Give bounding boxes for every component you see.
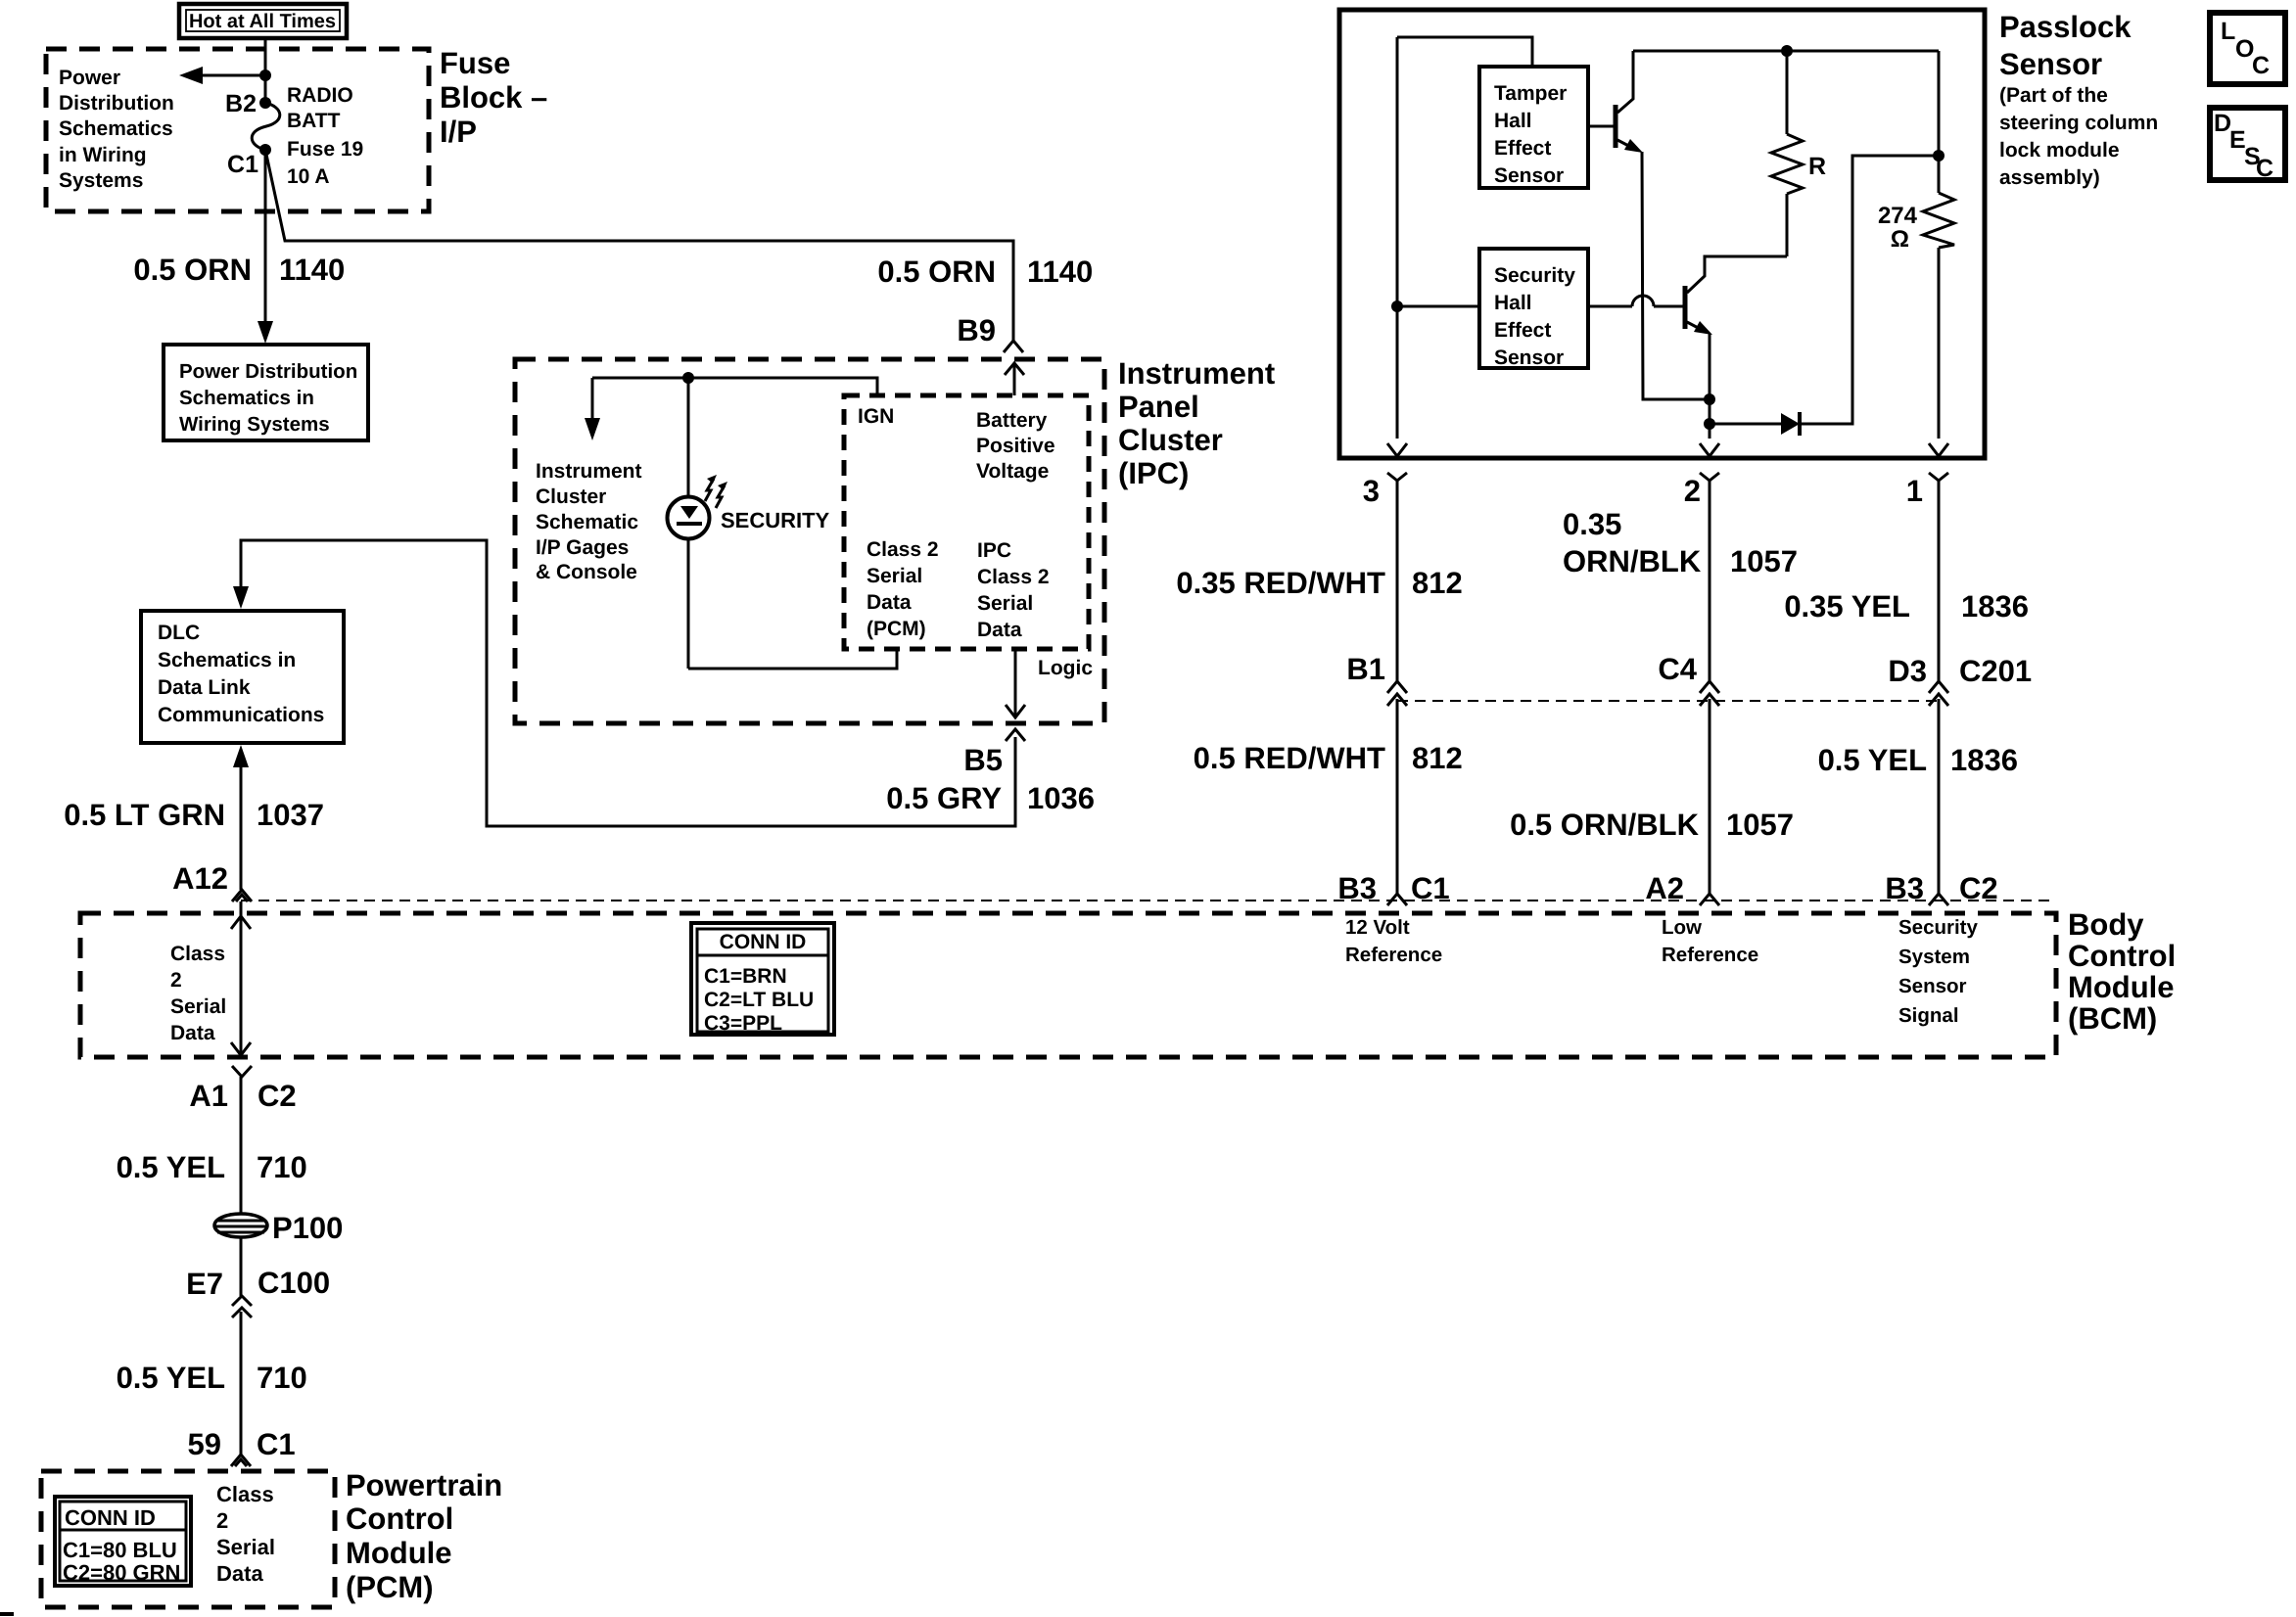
svg-text:Power Distribution: Power Distribution <box>179 360 357 383</box>
transistor Q1 (tamper) <box>1588 51 1643 153</box>
svg-text:DLC: DLC <box>158 622 200 644</box>
label Body Control Module (BCM) <box>2068 907 2176 1036</box>
svg-text:Data: Data <box>867 591 912 614</box>
text Class 2 Serial Data (BCM) <box>170 943 226 1044</box>
svg-text:Systems: Systems <box>59 169 143 192</box>
connector pin 3 <box>1363 473 1407 681</box>
junction dot on rail <box>1781 45 1793 57</box>
wire battery positive entering IPC <box>1005 363 1024 395</box>
svg-text:Data: Data <box>216 1561 263 1586</box>
svg-text:0.5 ORN/BLK: 0.5 ORN/BLK <box>1510 808 1700 842</box>
svg-text:Panel: Panel <box>1118 390 1199 424</box>
svg-text:Module: Module <box>2068 970 2175 1004</box>
text 12 Volt Reference <box>1345 916 1442 966</box>
svg-text:C1=BRN: C1=BRN <box>704 965 787 988</box>
svg-text:Reference: Reference <box>1662 944 1758 966</box>
wire LED to logic box <box>688 649 897 669</box>
svg-text:0.5 RED/WHT: 0.5 RED/WHT <box>1194 741 1385 775</box>
svg-text:2: 2 <box>1684 474 1701 508</box>
fuse block dashed box <box>46 49 429 211</box>
connector B3/C2 at BCM <box>1885 871 1997 905</box>
svg-text:Serial: Serial <box>216 1535 275 1559</box>
splice P100 <box>214 1211 343 1245</box>
svg-text:Powertrain: Powertrain <box>346 1468 502 1502</box>
svg-text:Power: Power <box>59 67 120 89</box>
svg-text:Control: Control <box>2068 939 2176 973</box>
LOC reference box <box>2210 13 2285 84</box>
connector A12 <box>232 890 252 901</box>
connector row C201 dashed line <box>1397 700 1939 702</box>
svg-text:B2: B2 <box>225 90 257 117</box>
top rail <box>1633 50 1939 53</box>
svg-text:Instrument: Instrument <box>1118 356 1275 391</box>
diode D1 branch <box>1710 156 1939 436</box>
svg-text:812: 812 <box>1412 741 1463 775</box>
connector B5 <box>1006 729 1025 741</box>
connector B3/C1 at BCM <box>1337 871 1449 905</box>
junction dot diode branch <box>1704 418 1715 430</box>
class 2 serial data wire through BCM <box>231 901 251 1055</box>
wire 0.5 YEL 710 to P100 <box>240 1077 243 1296</box>
text Low Reference <box>1662 916 1758 966</box>
svg-text:C3=PPL: C3=PPL <box>704 1012 782 1035</box>
connector row dashed line at BCM <box>241 900 2056 901</box>
svg-text:274: 274 <box>1878 203 1918 229</box>
svg-text:1: 1 <box>1906 474 1923 508</box>
svg-text:Logic: Logic <box>1038 657 1093 679</box>
svg-text:Hall: Hall <box>1494 292 1532 314</box>
svg-text:Schematics in: Schematics in <box>158 649 296 671</box>
svg-text:B9: B9 <box>957 313 996 347</box>
fuse value labels RADIO BATT Fuse 19 10 A <box>287 84 363 188</box>
svg-text:C4: C4 <box>1658 652 1697 686</box>
svg-text:R: R <box>1808 153 1826 180</box>
fuse F19 RADIO BATT <box>259 97 271 109</box>
arrow to instrument cluster schematic <box>585 378 600 440</box>
connector pin 2 <box>1684 473 1719 681</box>
svg-text:Data: Data <box>170 1022 215 1044</box>
svg-text:(BCM): (BCM) <box>2068 1001 2157 1036</box>
svg-text:Hot at All Times: Hot at All Times <box>189 11 336 32</box>
connector E7/C100 <box>186 1266 330 1317</box>
connector A2 at BCM <box>1645 871 1719 905</box>
svg-text:C2: C2 <box>258 1079 297 1113</box>
svg-text:Class 2: Class 2 <box>977 566 1050 588</box>
svg-text:C1: C1 <box>257 1427 296 1461</box>
junction dot emitter join <box>1704 393 1715 405</box>
svg-text:assembly): assembly) <box>1999 166 2100 189</box>
svg-text:SECURITY: SECURITY <box>721 508 830 532</box>
junction node on pin3 wire <box>1391 300 1403 312</box>
wire top-left to tamper sensor <box>1397 37 1532 67</box>
svg-text:C201: C201 <box>1959 654 2032 688</box>
svg-text:CONN ID: CONN ID <box>65 1505 156 1530</box>
svg-text:steering column: steering column <box>1999 112 2158 134</box>
page corner mark <box>0 1612 14 1616</box>
wire arrow to power distribution (left) <box>199 74 265 77</box>
svg-text:Serial: Serial <box>977 592 1033 615</box>
power feed box Hot at All Times <box>179 4 347 38</box>
svg-text:Distribution: Distribution <box>59 92 174 115</box>
svg-text:Fuse: Fuse <box>440 46 510 80</box>
svg-text:1036: 1036 <box>1027 781 1095 815</box>
svg-text:A1: A1 <box>189 1079 228 1113</box>
wire Q2 emitter down <box>1709 334 1711 424</box>
svg-text:0.35 RED/WHT: 0.35 RED/WHT <box>1176 566 1385 600</box>
svg-text:B1: B1 <box>1346 652 1385 686</box>
svg-text:Instrument: Instrument <box>536 460 642 483</box>
svg-text:Voltage: Voltage <box>976 460 1049 483</box>
wire to security sensor <box>1397 305 1479 308</box>
connector 59/C1 at PCM <box>188 1427 296 1466</box>
svg-text:Effect: Effect <box>1494 319 1551 342</box>
svg-text:Schematics in: Schematics in <box>179 387 314 409</box>
svg-text:1057: 1057 <box>1726 808 1794 842</box>
svg-text:Effect: Effect <box>1494 137 1551 160</box>
svg-text:Module: Module <box>346 1536 452 1570</box>
svg-text:0.5 YEL: 0.5 YEL <box>1818 743 1927 777</box>
CONN ID box (PCM) <box>55 1497 191 1586</box>
svg-text:C2=LT BLU: C2=LT BLU <box>704 989 814 1011</box>
svg-text:Sensor: Sensor <box>1494 164 1564 187</box>
svg-text:Class: Class <box>170 943 225 965</box>
svg-text:Data Link: Data Link <box>158 676 251 699</box>
svg-text:Battery: Battery <box>976 409 1048 432</box>
svg-text:E7: E7 <box>186 1267 223 1301</box>
Body Control Module dashed box <box>80 913 2056 1057</box>
svg-text:0.5 ORN: 0.5 ORN <box>877 254 996 289</box>
svg-text:Reference: Reference <box>1345 944 1442 966</box>
svg-text:RADIO: RADIO <box>287 84 353 107</box>
connector pin 1 <box>1906 473 1948 681</box>
svg-text:(PCM): (PCM) <box>346 1570 434 1604</box>
text Power Distribution Schematics in Wiring Systems <box>59 67 174 192</box>
connector A1/C2 below BCM <box>189 1066 296 1113</box>
box Power Distribution Schematics in Wiring Systems <box>164 345 368 440</box>
IPC inner logic dashed box <box>844 395 1089 649</box>
svg-text:Communications: Communications <box>158 704 324 726</box>
svg-text:1140: 1140 <box>1027 254 1093 289</box>
svg-text:1037: 1037 <box>257 798 324 832</box>
svg-text:0.5 YEL: 0.5 YEL <box>117 1361 225 1395</box>
svg-text:Schematics: Schematics <box>59 117 173 140</box>
resistor R <box>1771 51 1826 256</box>
svg-text:Low: Low <box>1662 916 1702 939</box>
svg-text:I/P: I/P <box>440 115 477 149</box>
svg-text:1836: 1836 <box>1950 743 2018 777</box>
wire pin3 internal (left vertical) <box>1396 37 1399 439</box>
svg-text:D3: D3 <box>1888 654 1927 688</box>
svg-text:C2=80 GRN: C2=80 GRN <box>63 1560 180 1585</box>
svg-text:Serial: Serial <box>170 995 226 1018</box>
svg-text:Positive: Positive <box>976 435 1055 457</box>
wire C1 down with arrow <box>264 150 267 325</box>
text Class 2 Serial Data (PCM) <box>867 538 939 640</box>
svg-text:3: 3 <box>1363 474 1380 508</box>
svg-text:1836: 1836 <box>1961 589 2029 624</box>
svg-text:Hall: Hall <box>1494 110 1532 132</box>
svg-text:Sensor: Sensor <box>1999 47 2102 81</box>
svg-text:12 Volt: 12 Volt <box>1345 916 1410 939</box>
svg-text:Cluster: Cluster <box>1118 423 1223 457</box>
label Passlock Sensor (Part of the steering column lock module assembly) <box>1999 10 2158 189</box>
label Instrument Panel Cluster (IPC) <box>1118 356 1275 490</box>
svg-text:0.35 YEL: 0.35 YEL <box>1784 589 1910 624</box>
svg-text:Data: Data <box>977 619 1022 641</box>
connector B9 <box>1004 341 1023 352</box>
svg-text:Body: Body <box>2068 907 2144 942</box>
junction dot at 274 resistor <box>1933 150 1945 162</box>
wire 0.5 GRY from B5 to DLC <box>241 540 1015 826</box>
svg-text:0.5 ORN: 0.5 ORN <box>133 253 252 287</box>
label Fuse Block - I/P <box>440 46 547 149</box>
text Battery Positive Voltage <box>976 409 1055 483</box>
svg-text:P100: P100 <box>272 1211 343 1245</box>
svg-text:Security: Security <box>1898 916 1978 939</box>
wire Q1 emitter down <box>1642 152 1710 399</box>
svg-text:10 A: 10 A <box>287 165 330 188</box>
svg-text:I/P Gages: I/P Gages <box>536 536 629 559</box>
svg-text:B5: B5 <box>963 743 1003 777</box>
Tamper Hall Effect Sensor box <box>1479 67 1588 188</box>
text Instrument Cluster Schematic I/P Gages & Console <box>536 460 642 583</box>
junction dot <box>259 69 271 81</box>
svg-text:(Part of the: (Part of the <box>1999 84 2108 107</box>
text Class 2 Serial Data (PCM box) <box>216 1482 275 1586</box>
CONN ID box (BCM) <box>691 923 834 1035</box>
svg-text:0.5 GRY: 0.5 GRY <box>886 781 1002 815</box>
svg-text:lock module: lock module <box>1999 139 2120 162</box>
svg-text:Control: Control <box>346 1501 453 1536</box>
svg-text:C100: C100 <box>258 1266 330 1300</box>
svg-text:BATT: BATT <box>287 110 341 132</box>
svg-text:0.35: 0.35 <box>1563 507 1621 541</box>
svg-text:Cluster: Cluster <box>536 485 606 508</box>
svg-text:1140: 1140 <box>279 253 345 287</box>
svg-text:Serial: Serial <box>867 565 922 587</box>
svg-text:Schematic: Schematic <box>536 511 638 533</box>
svg-text:1057: 1057 <box>1730 544 1798 578</box>
svg-text:Fuse 19: Fuse 19 <box>287 138 363 161</box>
svg-text:IPC: IPC <box>977 539 1011 562</box>
Powertrain Control Module dashed box <box>41 1471 335 1607</box>
connector C4 at C201 <box>1658 652 1719 894</box>
logic output arrow to B5 <box>1006 649 1025 717</box>
LED indicator SECURITY <box>668 378 728 669</box>
wire IGN branch <box>592 378 877 395</box>
svg-text:(IPC): (IPC) <box>1118 456 1189 490</box>
svg-text:Sensor: Sensor <box>1494 346 1564 369</box>
svg-text:C: C <box>2252 52 2270 79</box>
svg-text:Security: Security <box>1494 264 1575 287</box>
svg-text:IGN: IGN <box>858 405 894 428</box>
wire DLC to A12 with up arrow <box>233 745 249 890</box>
resistor 274 ohm <box>1878 51 1954 456</box>
wire hot feed down to fuse B2 <box>264 38 267 103</box>
text IPC Class 2 Serial Data <box>977 539 1050 641</box>
svg-text:2: 2 <box>216 1508 228 1533</box>
svg-text:Wiring Systems: Wiring Systems <box>179 413 330 436</box>
svg-text:L: L <box>2221 18 2235 45</box>
Security Hall Effect Sensor box <box>1479 249 1588 369</box>
connector D3 at C201 <box>1888 654 2032 894</box>
svg-text:710: 710 <box>257 1150 307 1184</box>
svg-text:Ω: Ω <box>1891 226 1909 253</box>
svg-text:C1=80 BLU: C1=80 BLU <box>63 1538 177 1562</box>
svg-text:Block –: Block – <box>440 80 547 115</box>
svg-text:2: 2 <box>170 969 182 992</box>
transistor Q2 (security) <box>1588 256 1787 335</box>
connector B1 at C201 <box>1346 652 1407 894</box>
svg-text:ORN/BLK: ORN/BLK <box>1563 544 1702 578</box>
svg-text:812: 812 <box>1412 566 1463 600</box>
svg-text:Tamper: Tamper <box>1494 82 1567 105</box>
svg-text:Class 2: Class 2 <box>867 538 939 561</box>
svg-text:System: System <box>1898 946 1970 968</box>
DESC reference box <box>2210 108 2285 182</box>
svg-text:Signal: Signal <box>1898 1004 1959 1027</box>
label Powertrain Control Module (PCM) <box>346 1468 502 1604</box>
svg-text:in Wiring: in Wiring <box>59 144 147 166</box>
svg-text:A12: A12 <box>172 861 228 896</box>
svg-text:Class: Class <box>216 1482 274 1506</box>
svg-text:59: 59 <box>188 1427 221 1461</box>
svg-text:Sensor: Sensor <box>1898 975 1967 997</box>
svg-text:(PCM): (PCM) <box>867 618 926 640</box>
junction node <box>682 372 694 384</box>
DLC schematics box <box>141 611 344 743</box>
svg-text:710: 710 <box>257 1361 307 1395</box>
svg-text:0.5 YEL: 0.5 YEL <box>117 1150 225 1184</box>
svg-text:C1: C1 <box>227 151 258 178</box>
Passlock Sensor box <box>1339 10 1985 458</box>
wire pin2 down arrow <box>1700 424 1719 456</box>
IPC dashed box <box>515 359 1104 723</box>
svg-text:Passlock: Passlock <box>1999 10 2132 44</box>
svg-text:C: C <box>2256 155 2273 182</box>
svg-text:0.5 LT GRN: 0.5 LT GRN <box>64 798 225 832</box>
wire diagonal from C1 to IPC feed <box>265 150 1013 341</box>
svg-text:& Console: & Console <box>536 561 637 583</box>
text Security System Sensor Signal <box>1898 916 1978 1027</box>
svg-text:CONN ID: CONN ID <box>720 931 807 953</box>
